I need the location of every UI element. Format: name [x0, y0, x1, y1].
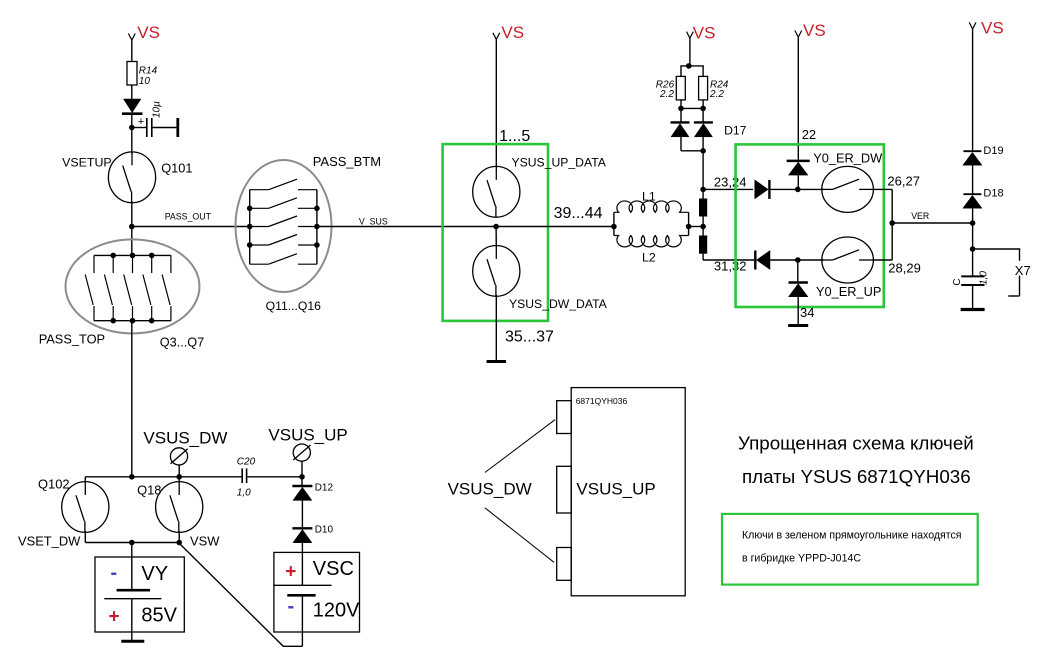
- svg-text:Q102: Q102: [38, 477, 70, 492]
- node 23,24: [700, 187, 706, 193]
- board tab 2: [557, 466, 572, 513]
- wire VER: [892, 222, 972, 224]
- node mid (V_SUS at beads): [700, 224, 706, 230]
- wire capacitor to terminal bar: [153, 127, 177, 129]
- wire D18 to VER node: [972, 208, 974, 276]
- wire row y=476.8: [85, 476, 241, 478]
- diode D18: [963, 193, 981, 195]
- diode to ER_DW (apex up): [787, 160, 810, 163]
- svg-text:-: -: [111, 562, 118, 584]
- svg-text:L1: L1: [642, 189, 656, 203]
- inductor pair end bar left: [613, 212, 615, 235]
- svg-text:D12: D12: [315, 482, 334, 493]
- svg-text:платы YSUS 6871QYH036: платы YSUS 6871QYH036: [742, 466, 971, 487]
- svg-text:28,29: 28,29: [888, 260, 921, 275]
- wire test point to row: [178, 465, 180, 483]
- PASS_BTM switch 5 (Q15): [250, 263, 269, 265]
- svg-text:VS: VS: [501, 23, 524, 42]
- wire VS down to ER_DW diode: [797, 38, 799, 161]
- svg-text:VS: VS: [693, 24, 716, 43]
- svg-text:YSUS_DW_DATA: YSUS_DW_DATA: [509, 297, 608, 311]
- inductor L1: [614, 201, 689, 212]
- node VER on bracket: [889, 220, 895, 226]
- wire PASS_TOP down to Q102/Q18 row: [131, 321, 133, 477]
- node on V_SUS at YSUS switches: [493, 224, 499, 230]
- node at ER_DW input: [795, 187, 801, 193]
- wires resistors to D17 pair: [680, 100, 682, 122]
- PASS_BTM left bar junctions: [247, 206, 253, 212]
- PASS_TOP switch 4 (Q6): [151, 255, 153, 273]
- ground (pin 34): [788, 324, 808, 327]
- svg-text:YSUS_UP_DATA: YSUS_UP_DATA: [512, 155, 607, 169]
- wire bead to row 31,32: [702, 254, 704, 260]
- wire Q18 to VSW node: [178, 531, 180, 543]
- board tab 3: [557, 548, 572, 581]
- dual diode D17 right half: [694, 121, 713, 123]
- wire row 23,24: [703, 188, 753, 190]
- svg-text:VS: VS: [137, 23, 160, 42]
- wire Q102 to bottom row: [84, 531, 86, 543]
- wire VSW to VSC (diagonal): [179, 543, 302, 646]
- transistor YSUS_UP_DATA (switch): [473, 166, 520, 217]
- PASS_TOP top bus bar: [94, 254, 171, 256]
- transistor Q101 (switch): [108, 152, 155, 203]
- wire diode to node A: [131, 115, 133, 154]
- dual diode D17 left half: [671, 121, 690, 123]
- node VER at rail: [970, 220, 976, 226]
- PASS_BTM switch 1 (Q11): [250, 189, 269, 191]
- svg-text:Q18: Q18: [137, 482, 161, 497]
- svg-text:Q3...Q7: Q3...Q7: [160, 336, 204, 350]
- svg-text:VSW: VSW: [190, 533, 220, 548]
- wire D19 to D18: [972, 165, 974, 194]
- junction below D17: [700, 148, 706, 154]
- PASS_TOP switch 2 (Q4): [112, 255, 114, 273]
- diode D19: [963, 150, 981, 152]
- node VSW: [176, 540, 182, 546]
- svg-text:L2: L2: [642, 251, 656, 265]
- transistor Y0_ER_DW (switch): [822, 166, 874, 212]
- PASS_BTM left bus bar: [249, 190, 251, 265]
- svg-text:D18: D18: [983, 187, 1003, 199]
- wire PASS_OUT to PASS_BTM: [132, 226, 250, 228]
- node X7 branch: [970, 246, 976, 252]
- wire diode to ER_DW node: [771, 188, 824, 190]
- power VS (left rail): [128, 34, 135, 41]
- connector X7 bracket: [973, 249, 1020, 261]
- svg-text:VY: VY: [141, 563, 168, 585]
- wire row 31,32: [703, 259, 754, 261]
- svg-text:R14: R14: [139, 66, 158, 77]
- wire YSUS_DW_DATA to ground: [495, 295, 497, 360]
- svg-text:VSUS_UP: VSUS_UP: [576, 480, 655, 499]
- diode row 23,24 (right-pointing): [755, 180, 769, 199]
- svg-text:+: +: [285, 562, 296, 583]
- wire split to R26 and R24: [681, 66, 703, 77]
- diode (series, under R14): [123, 99, 141, 113]
- PASS_BTM right bar junctions: [314, 206, 320, 212]
- wire ER_UP to 28,29: [873, 259, 892, 261]
- wire inductors to bead column: [689, 226, 704, 228]
- node VY top: [129, 540, 135, 546]
- VY battery plates: [117, 589, 150, 592]
- junction left of D17: [678, 106, 684, 112]
- wire node to D12: [301, 477, 303, 486]
- svg-text:34: 34: [800, 305, 814, 320]
- resistor R24: [699, 76, 708, 100]
- svg-text:31,32: 31,32: [714, 259, 747, 274]
- svg-text:D17: D17: [724, 124, 747, 138]
- svg-text:PASS_BTM: PASS_BTM: [313, 154, 381, 169]
- test point VSUS_UP: [293, 444, 310, 461]
- transistor YSUS_DW_DATA (switch): [495, 227, 497, 248]
- svg-text:VS: VS: [981, 19, 1004, 38]
- svg-text:2.2: 2.2: [659, 89, 674, 100]
- junction right of D17: [700, 106, 706, 112]
- transistor Q102 (switch): [84, 477, 86, 484]
- PASS_TOP switch 5 (Q7): [170, 255, 172, 273]
- svg-text:VSUS_UP: VSUS_UP: [268, 426, 347, 445]
- svg-text:D10: D10: [315, 525, 334, 536]
- capacitor C (right, to ground): [961, 275, 984, 277]
- node V_SUS at inductor right: [686, 224, 692, 230]
- svg-text:-: -: [288, 596, 295, 618]
- svg-text:V_SUS: V_SUS: [359, 216, 388, 226]
- wire bead to mid node: [702, 217, 704, 236]
- node A junction: [129, 125, 135, 131]
- svg-text:VS: VS: [803, 21, 826, 40]
- bracket wire 26,27/28,29: [891, 189, 893, 260]
- wire VS to D19: [972, 29, 974, 151]
- svg-text:+: +: [109, 607, 120, 628]
- svg-text:VSET_DW: VSET_DW: [18, 533, 81, 548]
- svg-text:85V: 85V: [141, 604, 177, 626]
- PASS_BTM switch 2 (Q12): [250, 207, 269, 209]
- svg-text:10: 10: [139, 76, 151, 87]
- wire diode to ground 34: [797, 297, 799, 324]
- wire diode to ER_UP node: [770, 259, 824, 261]
- svg-text:1,0: 1,0: [237, 487, 251, 498]
- svg-text:Y0_ER_DW: Y0_ER_DW: [813, 151, 883, 166]
- wire R14 to diode: [131, 85, 133, 99]
- node V_SUS at inductor left: [611, 224, 617, 230]
- wire node A to capacitor: [132, 127, 146, 129]
- diode ER_UP to ground (apex up): [789, 281, 808, 284]
- wire D10 to VSC: [301, 543, 303, 585]
- svg-text:VSC: VSC: [313, 558, 354, 580]
- battery box VY: [95, 557, 184, 632]
- PASS_TOP switch 3 (Q5): [132, 255, 134, 273]
- svg-text:1...5: 1...5: [499, 128, 530, 145]
- svg-text:Упрощенная схема ключей: Упрощенная схема ключей: [738, 433, 974, 454]
- svg-text:Ключи в зеленом прямоугольнике: Ключи в зеленом прямоугольнике находятся: [742, 530, 962, 542]
- PASS_TOP top bar junctions: [110, 253, 116, 259]
- diode D12: [292, 485, 312, 487]
- battery box VSC: [274, 552, 360, 632]
- transistor Q18 (switch): [156, 482, 203, 533]
- svg-text:35...37: 35...37: [505, 329, 554, 346]
- bottom row wire: [85, 542, 179, 544]
- svg-text:C20: C20: [237, 457, 256, 468]
- board tab 1: [557, 401, 572, 434]
- svg-text:Q11...Q16: Q11...Q16: [266, 299, 322, 313]
- wire VY to ground: [131, 599, 133, 640]
- wire VS to R14: [131, 40, 133, 61]
- green hybrid rectangle 2: [736, 144, 884, 307]
- wire ER_UP branch down to diode: [797, 260, 799, 281]
- svg-text:PASS_OUT: PASS_OUT: [165, 211, 212, 221]
- capacitor C20: [241, 468, 243, 483]
- note green rectangle: [722, 514, 978, 585]
- callout line to tab 1: [485, 420, 555, 473]
- node at PASS column / VSUS_DW row: [129, 474, 135, 480]
- wire VS to YSUS_UP_DATA: [495, 39, 497, 167]
- transistor group PASS_TOP (Q3...Q7) ellipse: [66, 239, 200, 333]
- ground (VY): [121, 640, 144, 643]
- test point VSUS_DW: [170, 448, 187, 465]
- node Q18 top: [176, 474, 182, 480]
- PASS_BTM switch 3 (Q13): [250, 226, 269, 228]
- svg-text:Y0_ER_UP: Y0_ER_UP: [816, 284, 881, 299]
- diode row 31,32 (left-pointing): [757, 251, 771, 270]
- wire diode to node: [797, 176, 799, 190]
- PASS_TOP bottom bus bar: [94, 320, 171, 322]
- wire joining resistor bottoms: [681, 107, 703, 109]
- wire into VY: [131, 543, 133, 590]
- wire ER_DW to 26,27: [873, 188, 892, 190]
- svg-text:6871QYH036: 6871QYH036: [576, 396, 628, 406]
- svg-text:C: C: [952, 278, 963, 285]
- terminal bar of capacitor branch: [176, 118, 179, 137]
- svg-text:22: 22: [802, 127, 816, 142]
- svg-text:2.2: 2.2: [709, 89, 724, 100]
- svg-text:23,24: 23,24: [714, 175, 747, 190]
- node PASS_OUT: [129, 224, 135, 230]
- svg-text:Q101: Q101: [161, 160, 192, 175]
- svg-text:X7: X7: [1015, 263, 1031, 278]
- capacitor 10u (polarized): [146, 118, 148, 137]
- svg-text:10µ: 10µ: [152, 101, 163, 118]
- wire C20 to VSUS_UP node: [247, 476, 302, 478]
- wire VS to resistor split: [689, 38, 691, 66]
- hybrid board outline: [571, 388, 685, 596]
- resistor R14: [127, 62, 137, 86]
- PASS_TOP switch 1 (Q3): [93, 255, 95, 273]
- wire V_SUS inside box: [473, 226, 614, 228]
- svg-text:VER: VER: [911, 211, 929, 221]
- diode D10: [292, 527, 312, 529]
- svg-text:VSUS_DW: VSUS_DW: [448, 480, 532, 499]
- node above R26/R24: [686, 63, 692, 69]
- wires D17 to join node: [680, 137, 682, 151]
- svg-text:39...44: 39...44: [554, 205, 603, 222]
- power VS (right rail): [969, 22, 976, 29]
- wire V_SUS (PASS_BTM to hybrid box): [317, 226, 473, 228]
- svg-text:120V: 120V: [313, 599, 360, 621]
- power VS (Y0_ER rail): [795, 31, 802, 38]
- ferrite bead upper: [699, 199, 707, 217]
- ground (YSUS data): [487, 360, 507, 363]
- PASS_BTM switch 4 (Q14): [250, 244, 269, 246]
- VSC battery plates: [274, 584, 332, 586]
- wire D12 to D10: [301, 500, 303, 528]
- wire joining D17 bottoms: [681, 150, 703, 152]
- svg-text:VSETUP: VSETUP: [62, 156, 112, 170]
- svg-text:D19: D19: [983, 145, 1003, 157]
- wire capacitor to ground: [972, 286, 974, 308]
- inductor pair end bar right: [688, 212, 690, 235]
- svg-text:в гибридке YPPD-J014C: в гибридке YPPD-J014C: [742, 553, 861, 565]
- svg-text:VSUS_DW: VSUS_DW: [143, 429, 227, 448]
- callout line to tab 3: [485, 508, 554, 563]
- resistor R26: [676, 76, 685, 100]
- transistor Y0_ER_UP (switch): [822, 237, 874, 283]
- ground (right rail): [961, 308, 985, 311]
- svg-text:26,27: 26,27: [887, 174, 920, 189]
- PASS_TOP bottom bar junctions: [110, 318, 116, 324]
- node at ER_UP input: [795, 257, 801, 263]
- wire test point to node: [301, 461, 303, 477]
- node VSUS_UP: [299, 474, 305, 480]
- power VS (R26/R24 rail): [687, 32, 694, 39]
- wire down to node 23,24: [702, 151, 704, 199]
- wire VSC bottom: [301, 595, 303, 646]
- ferrite bead lower: [699, 236, 707, 254]
- transistor group PASS_BTM (Q11...Q16) ellipse: [236, 160, 332, 292]
- PASS_BTM right bus bar: [316, 190, 318, 265]
- wire Q101 to PASS_OUT node: [131, 201, 133, 255]
- green hybrid rectangle 1: [443, 144, 548, 321]
- svg-text:+: +: [138, 116, 144, 128]
- svg-text:PASS_TOP: PASS_TOP: [39, 332, 105, 347]
- svg-text:1,0: 1,0: [979, 271, 990, 285]
- power VS (YSUS data rail): [493, 33, 500, 40]
- inductor L2: [614, 236, 689, 247]
